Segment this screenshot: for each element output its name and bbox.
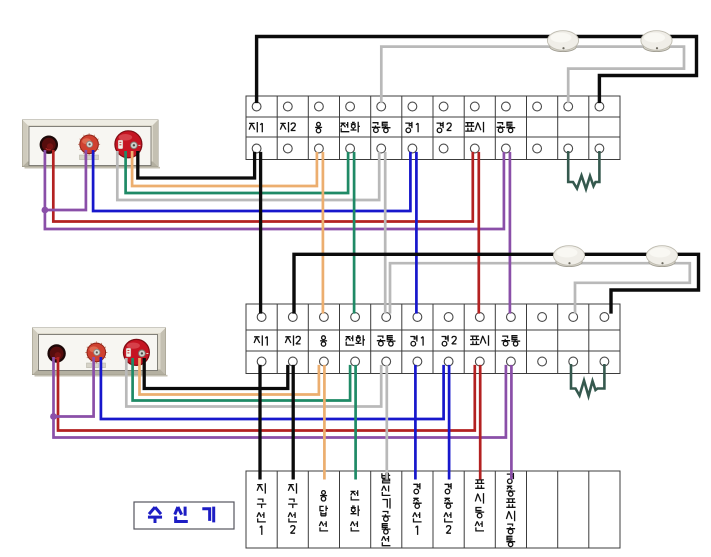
wire riser answer: TB1 col3 bottom to TB2 col3 top [322,152,325,314]
label 전화선 (vertical) [351,490,360,531]
resistor R2 (zone2 end-of-line) [571,364,604,396]
terminals TB2 top row [257,313,609,322]
label TB1 경2 [437,122,452,133]
wire drop 지구선1: TB2 col1 bottom to receiver strip [258,365,261,480]
label TB1 전화 [341,122,360,133]
label TB1 공통 [497,122,516,132]
label TB2 경2 [442,335,457,346]
label TB2 표시 [470,335,488,346]
smoke detector D1 [547,31,578,52]
panel box P2 (floor-1 call point set) [33,328,168,376]
wire P1 purple common: lamp to junction J1 [44,150,47,210]
terminals TB2 bottom row [257,357,609,366]
terminals TB1 top row [252,102,604,111]
wire P1 blue bell: bell to TB1.gyeong1 bottom [93,150,410,211]
wire P1 purple common: junction J1 to TB1.gongtong2 bottom [45,152,504,229]
wire P1 teal phone: call point to TB1.jeonhwa bottom [126,151,349,193]
wire P2 gray common: call point to TB2.gongtong bottom [126,358,381,407]
label 경종선1 (vertical) [413,483,422,535]
wire drop 응답선: TB2 col3 bottom to receiver strip [323,365,326,480]
wire riser bell 1: TB1 col6 bottom to TB2 col6 top [415,152,418,314]
smoke detector D3 [553,246,584,267]
label 경종선2 (vertical) [444,483,453,533]
P2 pilot lamp (red indicator) [47,344,65,362]
wire P2 blue bell: bell to TB2.gyeong2 bottom [101,357,444,419]
junction J2 [50,413,57,420]
wire drop 지구선2: TB2 col2 bottom to receiver strip [292,365,295,480]
terminals TB1 bottom row [252,144,604,153]
resistor R1 (zone1 end-of-line) [568,151,599,189]
wire P2 purple common: junction J2 to bell [54,357,94,417]
label TB1 지1 [249,122,262,132]
wire P2 black zone: call point to TB2.zi2 bottom [144,358,288,389]
P1 alarm bell [78,133,100,155]
wire drop 경종표시공통: TB2 col9 bottom to receiver strip [510,365,513,480]
panel P2 printed marks [87,363,106,368]
P1 pilot lamp (red indicator) [40,136,58,154]
junction J1 [42,207,49,214]
wire zone1 loop black: TB1.zi1.top to detectors to TB1 col12 top [257,37,697,104]
wire drop 전화선: TB2 col4 bottom to receiver strip [354,365,357,480]
label TB1 응 [315,122,322,132]
label 표시등선 (vertical) [475,480,484,531]
P2 alarm bell [85,341,107,363]
label TB1 공통 [372,122,391,132]
label TB2 응 [320,336,327,346]
panel P1 printed marks [80,155,99,160]
receiver wire-name strip [246,471,620,548]
label 경종표시공통 (vertical) [506,473,515,547]
wire drop 표시등선: TB2 col8 bottom to receiver strip [479,365,482,480]
label TB1 지2 [280,122,295,132]
wire zone1 loop gray (common): TB1.gongtong.top to detectors to TB1 col11 top [381,47,684,104]
wire P1 red lamp: lamp to TB1.pyosi bottom [53,150,473,222]
wire riser lamp: TB1 col8 bottom to TB2 col8 top [477,152,480,314]
wire drop 경종선1: TB2 col6 bottom to receiver strip [414,365,417,480]
wire riser zone line 1: TB1 col1 bottom to TB2 col1 top [259,152,262,314]
label TB1 경1 [405,122,418,133]
wire riser common: TB1 col5 bottom to TB2 col5 top [384,152,387,314]
P1 manual call point [115,131,142,158]
smoke detector D2 [641,31,672,52]
wire P2 orange answer: call point to TB2.eung bottom [140,358,319,395]
wire P1 purple common: junction J1 to bell [45,150,86,210]
label TB2 전화 [346,335,365,346]
label 발신기공통선 (vertical) [382,473,391,546]
wire P1 orange answer: call point to TB1.eung bottom [132,151,317,186]
panel box P1 (floor-2 call point set) [23,120,161,168]
wire P2 red lamp: lamp to TB2.pyosi bottom [58,357,475,431]
label TB2 지2 [285,335,300,345]
wire zone2 loop gray (common): TB2.gongtong.top to detectors to TB2 col11 top [390,263,690,313]
wire P2 purple common: junction J2 to TB2.gongtong2 bottom [54,365,506,438]
smoke detector D4 [646,246,677,267]
label TB2 공통 [502,336,521,346]
wire P2 purple common: lamp to junction J2 [52,357,55,417]
receiver label box 수신기 [134,502,234,529]
label 지구선2 (vertical) [288,483,297,533]
wire drop 경종선2: TB2 col7 bottom to receiver strip [448,365,451,480]
label TB1 표시 [465,122,483,132]
label TB2 경1 [410,335,423,346]
wire riser bell/lamp common: TB1 col9 bottom to TB2 col9 top [509,152,512,314]
wire zone2 loop black: TB2.zi2.top to detectors to TB2 col12 top [294,254,699,313]
wire riser phone: TB1 col4 bottom to TB2 col4 top [353,152,356,314]
wire P1 gray common: call point to TB1.gongtong bottom [117,151,379,200]
label 응답선 (vertical) [319,491,328,531]
wire P1 black zone: call point to TB1.zi1 bottom [138,151,255,178]
label TB2 공통 [377,336,396,346]
P2 manual call point [123,339,149,365]
label TB2 지1 [254,335,267,345]
terminal block TB1 (floor 2) [246,96,620,160]
label 지구선1 (vertical) [257,483,266,535]
wire drop 발신기공통선: TB2 col5 bottom to receiver strip [385,365,388,480]
terminal block TB2 (floor 1) [246,304,620,374]
wire P2 teal phone: call point to TB2.jeonhwa bottom [133,358,351,401]
